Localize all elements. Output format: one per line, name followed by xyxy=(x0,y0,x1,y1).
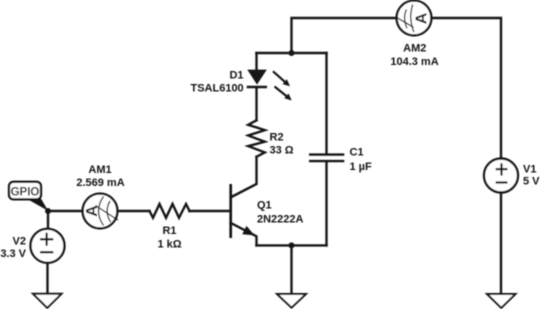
svg-text:AM2: AM2 xyxy=(403,43,426,55)
svg-text:2.569 mA: 2.569 mA xyxy=(76,177,124,189)
svg-text:A: A xyxy=(84,205,101,217)
svg-text:1 kΩ: 1 kΩ xyxy=(157,239,181,251)
svg-text:R1: R1 xyxy=(162,225,176,237)
svg-text:AM1: AM1 xyxy=(88,164,111,176)
svg-text:R2: R2 xyxy=(270,132,284,144)
svg-text:33 Ω: 33 Ω xyxy=(270,145,294,157)
svg-text:5 V: 5 V xyxy=(523,176,540,188)
svg-text:A: A xyxy=(413,12,430,24)
svg-text:TSAL6100: TSAL6100 xyxy=(190,82,243,94)
svg-text:D1: D1 xyxy=(229,70,243,82)
svg-text:1 µF: 1 µF xyxy=(350,161,373,173)
svg-text:C1: C1 xyxy=(350,147,364,159)
svg-text:3.3 V: 3.3 V xyxy=(0,248,26,260)
svg-text:V2: V2 xyxy=(13,236,26,248)
svg-text:V1: V1 xyxy=(523,164,536,176)
svg-text:Q1: Q1 xyxy=(257,200,272,212)
svg-text:GPIO: GPIO xyxy=(11,187,40,199)
svg-text:104.3 mA: 104.3 mA xyxy=(390,56,438,68)
svg-text:2N2222A: 2N2222A xyxy=(257,214,304,226)
